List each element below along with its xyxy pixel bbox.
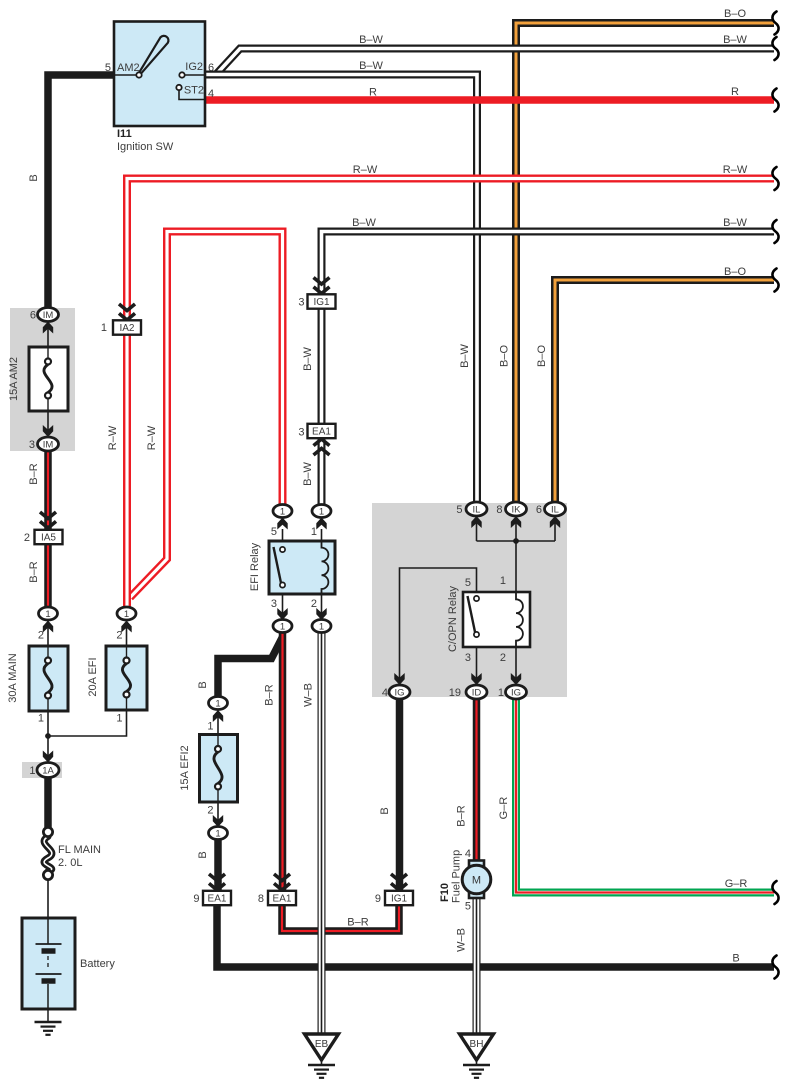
EFI relay coil	[322, 541, 329, 594]
arrow into IG1 pin3	[314, 278, 330, 294]
arrow into IG1 pin9	[391, 874, 407, 890]
junction dot under IK8	[513, 538, 519, 544]
wire ST2 pin stub inside ignition switch	[179, 90, 205, 100]
connector IA2	[113, 320, 141, 334]
svg-text:R–W: R–W	[353, 164, 378, 176]
fuse 30A MAIN	[29, 646, 68, 711]
arrow into 15A EFI2 lower oval	[213, 815, 223, 827]
svg-text:3: 3	[298, 427, 304, 439]
wire B-O from IL6 up and off-page right	[555, 280, 774, 502]
svg-text:6: 6	[536, 504, 542, 516]
svg-text:20A EFI: 20A EFI	[87, 657, 99, 696]
wire B-W branch from IG2 off-page right	[216, 49, 774, 75]
svg-text:1: 1	[500, 575, 506, 587]
wire EFI relay pin 1 stub	[321, 529, 323, 541]
connector oval above 30A MAIN	[39, 607, 58, 620]
svg-text:1: 1	[215, 698, 220, 709]
svg-text:EA1: EA1	[208, 894, 227, 905]
svg-text:B: B	[732, 953, 739, 965]
ignition switch AM2 contact	[136, 72, 141, 77]
connector EA1 pin8	[268, 891, 296, 905]
svg-text:IG2: IG2	[185, 61, 203, 73]
arrow into EFI relay pin1 oval	[316, 518, 326, 530]
svg-text:B–R: B–R	[347, 917, 368, 929]
svg-text:IG1: IG1	[313, 297, 330, 308]
connector ID pin19	[466, 685, 487, 699]
break B-O 2	[772, 269, 778, 292]
svg-text:5: 5	[456, 504, 462, 516]
svg-text:1: 1	[498, 687, 504, 699]
wire R-W off-page right to IA2 and 20A EFI	[127, 179, 774, 608]
ignition switch ST2 contact	[176, 85, 181, 90]
wire B-O from IK8 up and off-page right	[516, 23, 774, 502]
svg-text:30A MAIN: 30A MAIN	[7, 653, 19, 703]
break B-W 2	[772, 220, 778, 243]
svg-text:B: B	[379, 807, 391, 814]
ignition switch I11 body	[114, 22, 205, 127]
svg-text:1: 1	[116, 713, 122, 725]
svg-text:19: 19	[449, 687, 461, 699]
svg-text:B–O: B–O	[724, 8, 746, 20]
svg-text:IG1: IG1	[391, 894, 408, 905]
svg-text:W–B: W–B	[303, 683, 315, 707]
svg-text:R–W: R–W	[107, 425, 119, 450]
svg-text:R: R	[731, 86, 739, 98]
connector IG1 pin3	[308, 294, 336, 308]
svg-text:4: 4	[382, 687, 388, 699]
connector oval EFI relay pin3	[273, 620, 292, 633]
svg-text:5: 5	[271, 526, 277, 538]
wire AM2 pin stub inside ignition switch	[114, 74, 137, 76]
svg-text:B–R: B–R	[28, 463, 40, 484]
wire B-R from ID19 to fuel pump	[473, 699, 481, 861]
svg-text:C/OPN Relay: C/OPN Relay	[447, 585, 459, 652]
svg-text:W–B: W–B	[456, 928, 468, 952]
svg-text:2. 0L: 2. 0L	[58, 857, 82, 869]
wire IK8 stub	[515, 516, 517, 541]
svg-text:1: 1	[45, 609, 50, 620]
wire B-R link EA1 pin 8 to IG1 pin 9	[282, 905, 399, 931]
svg-text:1: 1	[280, 506, 285, 517]
wire 20A EFI oval to fuse	[126, 620, 128, 646]
wire B-R from IM3 through IA5 to 30A MAIN	[44, 451, 52, 607]
svg-text:1: 1	[319, 506, 324, 517]
arrow into EFI relay pin2 oval	[316, 608, 326, 620]
pin number labels	[24, 61, 542, 913]
wire B 15A EFI2 to EA1 pin 9	[214, 839, 222, 891]
svg-text:M: M	[472, 875, 481, 887]
svg-text:2: 2	[311, 598, 317, 610]
svg-text:IM: IM	[43, 439, 54, 450]
wire fuse 15A EFI2 to oval	[217, 802, 219, 827]
arrow into 20A EFI oval	[121, 621, 131, 633]
svg-text:B–W: B–W	[302, 461, 314, 485]
svg-text:IA5: IA5	[41, 533, 56, 544]
wire bus joining IL IK IL	[477, 540, 556, 542]
svg-text:15A AM2: 15A AM2	[8, 357, 20, 401]
ignition switch lever	[139, 36, 168, 74]
svg-text:4: 4	[208, 88, 214, 100]
svg-text:1: 1	[101, 322, 107, 334]
wire junction to C/OPN relay pin 1	[515, 541, 517, 592]
svg-text:B: B	[197, 681, 209, 688]
svg-text:8: 8	[258, 893, 264, 905]
svg-text:B–W: B–W	[459, 343, 471, 367]
svg-text:B–O: B–O	[724, 266, 746, 278]
break R	[772, 89, 778, 112]
svg-text:1: 1	[29, 765, 35, 777]
svg-text:3: 3	[465, 652, 471, 664]
shade strip connector 1A	[22, 762, 62, 778]
svg-text:EFI Relay: EFI Relay	[249, 542, 261, 591]
svg-text:EB: EB	[315, 1039, 329, 1050]
svg-text:B–O: B–O	[536, 345, 548, 367]
svg-text:2: 2	[207, 805, 213, 817]
svg-text:3: 3	[298, 297, 304, 309]
svg-text:B–W: B–W	[359, 34, 383, 46]
arrow into IG4	[394, 673, 404, 685]
connector IG pin4	[389, 685, 410, 699]
svg-text:4: 4	[465, 848, 471, 860]
arrow into EFI relay pin5 oval	[277, 518, 287, 530]
arrow into IA5	[40, 512, 56, 528]
svg-text:2: 2	[38, 630, 44, 642]
wire FL MAIN to battery	[47, 879, 49, 918]
fuse 15A AM2	[29, 347, 68, 411]
connector EA1 pin9	[203, 891, 231, 905]
svg-text:9: 9	[375, 893, 381, 905]
connector oval above 15A EFI2	[209, 697, 228, 710]
svg-text:B–R: B–R	[28, 561, 40, 582]
wire B from AM2 to IM6	[48, 75, 114, 308]
svg-text:EA1: EA1	[273, 894, 292, 905]
wire fuse 15A AM2 to IM3	[47, 411, 49, 437]
svg-text:B–R: B–R	[456, 805, 468, 826]
wire IG2 pin stub inside ignition switch	[185, 74, 206, 76]
wire 20A EFI pin1 to junction	[48, 710, 127, 736]
wire R-W loop from EFI relay pin 5	[130, 232, 283, 598]
svg-text:5: 5	[105, 62, 111, 74]
battery body	[22, 918, 75, 1009]
svg-text:BH: BH	[470, 1039, 484, 1050]
svg-text:5: 5	[465, 901, 471, 913]
svg-text:B: B	[197, 851, 209, 858]
svg-text:3: 3	[29, 439, 35, 451]
svg-text:9: 9	[193, 893, 199, 905]
relay EFI Relay body	[269, 541, 335, 594]
wire W-B fuel pump to ground BH	[473, 898, 481, 1034]
ground hatch EB	[308, 1065, 335, 1078]
wire B-R EFI relay pin 3 to EA1 pin 8	[279, 632, 287, 891]
svg-text:IM: IM	[43, 310, 54, 321]
arrow into IL6	[550, 516, 560, 528]
svg-text:I11: I11	[117, 128, 132, 140]
svg-text:B–W: B–W	[352, 217, 376, 229]
svg-text:ST2: ST2	[184, 85, 204, 97]
break R-W	[772, 167, 778, 190]
svg-text:R–W: R–W	[146, 425, 158, 450]
svg-text:IK: IK	[512, 504, 522, 515]
svg-text:6: 6	[30, 310, 36, 322]
connector oval above 20A EFI	[117, 607, 136, 620]
wire B branch to 15A EFI2	[218, 637, 283, 697]
connector IL pin5	[466, 502, 487, 516]
svg-text:B–R: B–R	[264, 684, 276, 705]
ignition switch IG2 contact	[179, 72, 184, 77]
wire IL6 stub	[554, 516, 556, 541]
fuel pump F10 motor	[462, 861, 491, 899]
svg-text:15A EFI2: 15A EFI2	[179, 745, 191, 790]
wire W-B EFI relay pin 2 to ground EB	[318, 632, 326, 1034]
svg-text:1: 1	[124, 609, 129, 620]
connector oval EFI relay pin5	[273, 505, 292, 518]
connector oval below 15A EFI2	[209, 827, 228, 840]
ground BH	[460, 1034, 494, 1065]
relay C/OPN Relay body	[463, 592, 530, 647]
wire B connector 1A to FL MAIN	[44, 777, 52, 828]
C/OPN relay switch	[468, 596, 480, 637]
connector EA1 pin3	[308, 424, 336, 438]
arrow into IL5	[471, 516, 481, 528]
wire EFI relay pin 5 stub	[282, 529, 284, 541]
wire R from ST2 off-page right	[205, 96, 774, 104]
arrow into 30A MAIN oval	[43, 621, 53, 633]
wire IM6 to fuse 15A AM2	[47, 321, 49, 347]
EFI relay switch	[274, 547, 286, 588]
svg-text:AM2: AM2	[117, 62, 140, 74]
junction dot below 30A MAIN	[45, 733, 51, 739]
svg-text:1: 1	[207, 721, 213, 733]
connector 1A	[37, 763, 59, 778]
svg-text:B–W: B–W	[359, 60, 383, 72]
svg-text:B–W: B–W	[302, 346, 314, 370]
svg-text:B–W: B–W	[723, 217, 747, 229]
ground below battery	[35, 1022, 62, 1035]
svg-text:Ignition SW: Ignition SW	[117, 141, 174, 153]
break B-O top	[772, 12, 778, 35]
svg-text:B–W: B–W	[723, 34, 747, 46]
wire C/OPN relay pin 2 to IG1	[515, 647, 517, 685]
battery ground lead	[47, 1009, 49, 1022]
arrow into IM3	[43, 425, 53, 437]
svg-text:R: R	[369, 87, 377, 99]
wire B ground bus from EA1 pin 9 off-page right	[217, 905, 774, 967]
connector oval EFI relay pin1	[312, 505, 331, 518]
wire EFI relay pin 2 stub	[321, 594, 323, 620]
arrow into EA1 pin3	[314, 439, 330, 455]
svg-text:IL: IL	[551, 504, 559, 515]
svg-text:FL MAIN: FL MAIN	[58, 844, 101, 856]
fuse 20A EFI	[106, 646, 147, 710]
svg-text:1: 1	[38, 713, 44, 725]
battery cells	[36, 918, 62, 1009]
wire B from IG4 to IG1 pin 9	[396, 699, 404, 891]
svg-text:5: 5	[465, 577, 471, 589]
svg-text:2: 2	[116, 630, 122, 642]
svg-text:B–O: B–O	[499, 345, 511, 367]
shade block ECU / C/OPN relay block	[372, 503, 567, 697]
svg-text:1A: 1A	[42, 765, 54, 776]
svg-text:B: B	[28, 174, 40, 181]
svg-text:8: 8	[496, 504, 502, 516]
arrow into EFI relay pin3 oval	[277, 608, 287, 620]
wire B-W from IG2 down to IL5	[205, 75, 477, 503]
svg-text:1: 1	[319, 621, 324, 632]
arrow into connector 1A	[43, 751, 53, 763]
connector oval EFI relay pin2	[312, 620, 331, 633]
wire C/OPN relay pin 3 to ID19	[476, 647, 478, 685]
wire B-W IG1 to EA1	[318, 309, 326, 424]
arrow into 15A EFI2 oval	[213, 710, 223, 722]
wire EFI2 oval to fuse 15A EFI2	[217, 709, 219, 735]
arrow into IM6	[43, 322, 53, 334]
arrow into IK8	[511, 516, 521, 528]
svg-text:IA2: IA2	[119, 323, 134, 334]
connector IL pin6	[545, 502, 566, 516]
connector IM pin3	[38, 437, 59, 451]
svg-text:1: 1	[280, 621, 285, 632]
svg-text:IG: IG	[394, 687, 404, 698]
svg-text:EA1: EA1	[312, 427, 331, 438]
svg-text:Fuel Pump: Fuel Pump	[451, 850, 463, 903]
arrow into IA2	[119, 304, 135, 320]
svg-text:1: 1	[311, 526, 317, 538]
svg-text:Battery: Battery	[80, 958, 115, 970]
svg-text:2: 2	[500, 652, 506, 664]
arrow into ID19	[471, 673, 481, 685]
break B ground bus	[772, 956, 778, 979]
shade block ignition relay block (15A AM2)	[10, 308, 75, 451]
wire EFI relay pin 3 stub	[282, 594, 284, 620]
arrow into EA1 pin9	[209, 874, 225, 890]
fuse 15A EFI2	[200, 735, 238, 803]
wire B-W EA1 to EFI relay pin 1	[318, 437, 326, 505]
ground EB	[305, 1034, 339, 1065]
break B-W 1	[772, 37, 778, 60]
ground hatch BH	[463, 1065, 490, 1078]
svg-text:F10: F10	[439, 883, 451, 902]
wire G-R from IG1 off-page right	[516, 699, 774, 893]
fusible link FL MAIN 2.0L	[43, 827, 52, 879]
svg-text:3: 3	[271, 598, 277, 610]
wire 30A MAIN pin1 to connector 1A	[47, 711, 49, 763]
connector IM pin6	[38, 308, 59, 322]
svg-text:G–R: G–R	[725, 878, 748, 890]
arrow into EA1 pin8	[274, 874, 290, 890]
wire B-W off-page right down to IG1 pin 3	[322, 232, 775, 295]
connector IG pin1	[506, 685, 527, 699]
C/OPN relay coil	[516, 592, 523, 647]
svg-text:IL: IL	[473, 504, 481, 515]
svg-text:G–R: G–R	[498, 797, 510, 820]
svg-text:ID: ID	[472, 687, 482, 698]
svg-text:1: 1	[215, 828, 220, 839]
wire 30A MAIN oval to fuse	[47, 620, 49, 646]
arrow into IG1 pin1	[511, 673, 521, 685]
wire IL5 stub	[476, 516, 478, 541]
connector IG1 pin9	[385, 891, 413, 905]
svg-text:IG: IG	[511, 687, 521, 698]
svg-text:2: 2	[24, 532, 30, 544]
connector IA5	[35, 530, 63, 544]
break G-R	[772, 881, 778, 904]
connector IK pin8	[506, 502, 527, 516]
svg-text:6: 6	[208, 62, 214, 74]
wire C/OPN relay pin 5 to IG4	[400, 568, 477, 685]
svg-text:R–W: R–W	[723, 164, 748, 176]
